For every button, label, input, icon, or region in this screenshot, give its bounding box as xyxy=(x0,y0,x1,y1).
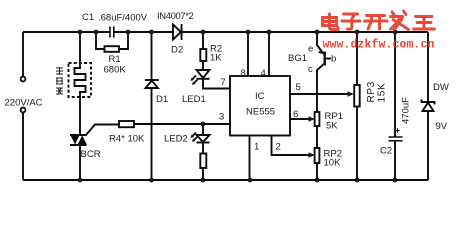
svg-text:D1: D1 xyxy=(156,94,168,105)
svg-text:3: 3 xyxy=(219,111,224,122)
arrowhead RP1 wiper xyxy=(309,116,315,121)
heater dashed box xyxy=(69,63,92,97)
svg-text:680K: 680K xyxy=(104,65,127,76)
resistor R3 box xyxy=(200,154,206,169)
node LED2 top junction xyxy=(201,122,206,127)
triac left triangle xyxy=(71,135,80,144)
svg-text:D2: D2 xyxy=(171,44,183,55)
LED2 cathode bar xyxy=(197,142,210,144)
diode D1 cathode bar xyxy=(145,79,159,81)
svg-text:5: 5 xyxy=(296,82,301,93)
wire RP1 to RP2 xyxy=(316,126,318,148)
title char dian xyxy=(323,14,339,30)
capacitor C2 plus sign xyxy=(395,128,400,133)
svg-text:e: e xyxy=(308,44,313,55)
svg-text:c: c xyxy=(308,64,313,75)
wire left edge upper xyxy=(22,32,24,77)
svg-text:BCR: BCR xyxy=(81,149,101,160)
svg-text:9V: 9V xyxy=(436,121,448,132)
wire heater to triac xyxy=(79,97,81,135)
svg-text:BG1: BG1 xyxy=(288,53,307,64)
wire left edge lower xyxy=(22,113,24,181)
svg-text:6: 6 xyxy=(293,109,298,120)
svg-text:4: 4 xyxy=(261,68,266,79)
LED2 triangle xyxy=(197,135,210,142)
triac right triangle xyxy=(78,135,88,144)
triac gate diagonal xyxy=(86,125,120,136)
wire pin 2 to RP2 wiper xyxy=(272,136,314,156)
wire LED2 drop xyxy=(202,124,204,135)
LED1 emission arrows xyxy=(191,76,198,86)
pot RP3 box xyxy=(354,85,360,107)
svg-text:1K: 1K xyxy=(210,53,222,64)
heater element meander xyxy=(75,66,86,97)
svg-text:1: 1 xyxy=(254,142,259,153)
wire top bus middle segment xyxy=(114,31,173,33)
svg-text:R1: R1 xyxy=(109,54,121,65)
svg-text:15K: 15K xyxy=(377,83,388,103)
wire LED1 to pin7 xyxy=(203,79,230,89)
wire zener DW top xyxy=(427,32,429,102)
svg-text:.68uF/400V: .68uF/400V xyxy=(98,13,148,24)
transistor BG1 base stub xyxy=(326,58,331,60)
resistor R4 box xyxy=(119,121,134,127)
pot RP1 box xyxy=(315,112,320,126)
wire pin3 net xyxy=(119,123,230,125)
junction dots bottom bus xyxy=(78,122,398,183)
svg-text:b: b xyxy=(331,54,336,65)
op IC NE555 box xyxy=(230,76,290,136)
transistor BG1 collector wire xyxy=(317,64,325,113)
svg-text:2: 2 xyxy=(276,142,281,153)
svg-text:IN4007*2: IN4007*2 xyxy=(157,11,194,22)
wire RP2 to bus xyxy=(316,163,318,180)
LED2 emission arrows xyxy=(191,133,198,143)
wire pin 6 to RP1 wiper xyxy=(290,118,313,120)
wire LED2 to R3 xyxy=(202,143,204,154)
wire zener DW bottom xyxy=(427,111,429,180)
wire top bus right segment xyxy=(182,31,429,33)
svg-text:470uF: 470uF xyxy=(401,97,412,124)
wire RP3 bottom xyxy=(356,107,358,181)
diode D2 triangle xyxy=(173,25,181,40)
capacitor C1 right plate xyxy=(113,27,115,38)
triac BCR bottom bar xyxy=(70,144,87,146)
svg-text:C2: C2 xyxy=(380,145,392,156)
wire pin 8 xyxy=(247,32,249,76)
title char zi xyxy=(342,14,360,29)
transistor BG1 base bar xyxy=(324,52,326,66)
terminal lower circle 220V xyxy=(21,108,26,113)
svg-text:R4* 10K: R4* 10K xyxy=(109,134,145,145)
transistor BG1 emitter wire xyxy=(317,32,324,54)
wire RP3 top xyxy=(356,32,358,85)
zener DW cathode bar with wings xyxy=(422,100,435,105)
svg-text:www.dzkfw.com.cn: www.dzkfw.com.cn xyxy=(323,39,435,52)
svg-text:NE555: NE555 xyxy=(246,106,275,117)
label heater text (drawn strokes) xyxy=(56,67,63,94)
junction dots top bus xyxy=(78,30,398,35)
wire R1 right rise xyxy=(119,32,128,49)
wire R1 left drop xyxy=(96,32,105,49)
LED1 triangle xyxy=(197,70,210,78)
triac BCR top bar xyxy=(70,134,87,136)
svg-text:LED1: LED1 xyxy=(182,94,206,105)
wire R2 to LED1 xyxy=(202,61,204,70)
red watermark title (drawn strokes) xyxy=(323,11,435,30)
svg-text:LED2: LED2 xyxy=(164,134,188,145)
arrowhead RP2 wiper xyxy=(309,152,315,157)
wire bottom bus xyxy=(23,179,428,181)
svg-text:8: 8 xyxy=(241,68,246,79)
svg-text:10K: 10K xyxy=(324,157,342,168)
wire D1 branch upper xyxy=(151,32,153,80)
diode D2 cathode bar xyxy=(181,24,183,40)
wire pin 1 xyxy=(249,136,251,181)
resistor R1 box xyxy=(105,46,120,52)
wire R2 branch top xyxy=(202,32,204,49)
wire R3 to bus xyxy=(202,168,204,180)
svg-text:C1: C1 xyxy=(82,12,94,23)
title char fa xyxy=(391,11,409,30)
arrowhead RP3 wiper xyxy=(348,91,354,96)
wire triac to bottom bus xyxy=(79,145,81,180)
title char wang xyxy=(414,17,435,30)
svg-text:DW: DW xyxy=(433,82,449,93)
wire heater branch top xyxy=(79,32,81,66)
diode D1 triangle xyxy=(146,81,159,88)
pot RP2 box xyxy=(315,148,320,163)
wire D1 branch lower xyxy=(151,88,153,180)
wire pin 5 to RP3 wiper xyxy=(290,93,352,95)
wire C2 top xyxy=(394,32,396,137)
svg-text:7: 7 xyxy=(221,77,226,88)
svg-text:5K: 5K xyxy=(326,120,338,131)
terminal upper circle 220V xyxy=(21,77,26,82)
capacitor C2 top plate xyxy=(389,136,403,138)
wire pin 4 xyxy=(268,32,270,76)
capacitor C1 left plate xyxy=(109,27,111,38)
wire top bus left segment xyxy=(23,31,110,33)
zener DW triangle xyxy=(423,103,434,111)
title char kai xyxy=(365,16,388,30)
svg-text:IC: IC xyxy=(255,91,265,102)
transistor BG1 emitter arrowhead xyxy=(318,49,324,54)
wire C2 bottom xyxy=(394,141,396,180)
capacitor C2 bottom plate xyxy=(389,140,403,142)
LED1 cathode bar xyxy=(197,78,210,80)
resistor R2 box xyxy=(200,49,206,61)
svg-text:220V/AC: 220V/AC xyxy=(5,97,43,108)
svg-text:RP3: RP3 xyxy=(366,81,377,103)
